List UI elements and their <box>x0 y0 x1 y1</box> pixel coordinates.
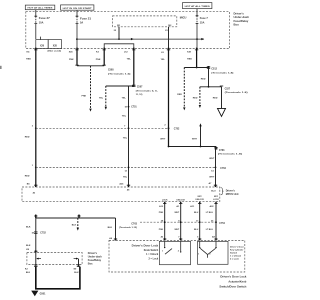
svg-text:PNK: PNK <box>82 96 87 98</box>
svg-text:15A: 15A <box>200 21 205 24</box>
svg-text:(Terminals 1-8): (Terminals 1-8) <box>218 154 242 156</box>
svg-text:Fuse 7: Fuse 7 <box>200 17 209 20</box>
svg-text:C764: C764 <box>220 167 226 170</box>
svg-text:BLU: BLU <box>194 212 199 214</box>
svg-text:(Terminals 1-6): (Terminals 1-6) <box>108 73 131 75</box>
svg-text:HOT IN ON OR START: HOT IN ON OR START <box>63 7 93 10</box>
svg-text:Driver's Door: Driver's Door <box>230 246 244 248</box>
svg-text:C763: C763 <box>131 224 137 226</box>
svg-text:BLK: BLK <box>26 226 31 228</box>
svg-text:RED: RED <box>25 176 30 178</box>
svg-text:PNK: PNK <box>69 59 74 61</box>
svg-text:YEL: YEL <box>99 97 104 99</box>
svg-text:UNLOCK: UNLOCK <box>176 200 185 202</box>
svg-text:Driver's: Driver's <box>226 189 236 192</box>
svg-text:LT BLU: LT BLU <box>206 229 214 231</box>
svg-text:G501: G501 <box>40 293 47 296</box>
svg-text:10A: 10A <box>39 21 44 24</box>
svg-text:RED: RED <box>177 94 182 96</box>
svg-text:(Terminals 5, 6,: (Terminals 5, 6, <box>136 90 159 92</box>
svg-text:LT BLU: LT BLU <box>206 212 214 214</box>
svg-text:KEY: KEY <box>198 196 203 198</box>
svg-text:Switch: Switch <box>230 251 238 254</box>
svg-text:BLU: BLU <box>194 229 199 231</box>
svg-text:C508: C508 <box>108 69 114 71</box>
svg-text:Box: Box <box>234 23 240 27</box>
svg-text:5A: 5A <box>80 22 83 25</box>
svg-text:1 = Unlock: 1 = Unlock <box>146 253 159 256</box>
svg-text:RED: RED <box>187 59 192 61</box>
svg-text:BLK: BLK <box>108 227 113 229</box>
svg-text:Knob Switch: Knob Switch <box>144 249 159 252</box>
svg-text:Switch/Door Switch: Switch/Door Switch <box>219 284 246 288</box>
svg-text:11, 12): 11, 12) <box>136 94 143 96</box>
svg-text:HOT AT ALL TIMES: HOT AT ALL TIMES <box>28 7 54 10</box>
svg-text:(Terminals 1-8): (Terminals 1-8) <box>225 92 248 94</box>
svg-text:WHT: WHT <box>174 229 179 231</box>
svg-text:C752: C752 <box>40 233 46 235</box>
svg-text:Fuse 27: Fuse 27 <box>39 17 51 20</box>
svg-text:PNK: PNK <box>159 229 164 231</box>
svg-text:WHT: WHT <box>209 158 215 160</box>
svg-text:YEL: YEL <box>123 177 128 179</box>
svg-text:YEL: YEL <box>161 59 166 61</box>
svg-text:YEL: YEL <box>122 97 127 99</box>
svg-text:1 = Unlock: 1 = Unlock <box>230 255 242 257</box>
svg-text:RED: RED <box>193 97 198 99</box>
svg-text:BLK: BLK <box>26 245 31 247</box>
svg-text:C754: C754 <box>219 222 225 225</box>
svg-text:C751: C751 <box>131 107 137 109</box>
svg-text:Driver's Door Lock: Driver's Door Lock <box>220 275 247 279</box>
svg-text:(Terminals 1-12): (Terminals 1-12) <box>119 227 137 229</box>
svg-text:MICU: MICU <box>180 15 187 19</box>
svg-text:Box: Box <box>88 262 93 265</box>
svg-text:LOCK: LOCK <box>162 200 168 202</box>
svg-text:(Terminals 1-8): (Terminals 1-8) <box>211 72 233 74</box>
svg-text:KEY: KEY <box>214 196 219 198</box>
svg-text:Fuse 21: Fuse 21 <box>80 18 92 21</box>
svg-text:WHT: WHT <box>160 138 166 140</box>
svg-text:(Not used): (Not used) <box>48 50 62 53</box>
svg-text:C763: C763 <box>219 150 225 152</box>
svg-text:PNK: PNK <box>159 212 164 214</box>
svg-text:MPCS Unit: MPCS Unit <box>226 193 239 196</box>
svg-text:RED: RED <box>213 97 218 99</box>
svg-text:RED: RED <box>26 59 31 61</box>
svg-text:RED: RED <box>25 136 30 138</box>
svg-text:BLK: BLK <box>26 272 31 274</box>
svg-text:RED: RED <box>201 78 206 80</box>
svg-text:C507: C507 <box>137 87 143 89</box>
svg-text:YEL: YEL <box>127 58 132 60</box>
svg-text:X28: X28 <box>53 45 58 47</box>
svg-text:WHT: WHT <box>192 138 198 140</box>
svg-text:PNK: PNK <box>96 59 101 61</box>
svg-text:C512: C512 <box>211 69 217 71</box>
svg-text:LOCK: LOCK <box>213 199 219 201</box>
svg-text:BLU: BLU <box>211 190 216 192</box>
svg-text:X26: X26 <box>40 45 45 47</box>
svg-text:Key Cylinder: Key Cylinder <box>230 249 244 251</box>
svg-text:YEL: YEL <box>123 138 128 140</box>
svg-text:HOT AT ALL TIMES: HOT AT ALL TIMES <box>185 5 211 8</box>
svg-text:UNLOCK: UNLOCK <box>195 199 204 201</box>
svg-text:WHT: WHT <box>209 176 215 178</box>
svg-text:WHT: WHT <box>174 212 179 214</box>
svg-text:C752: C752 <box>174 128 180 130</box>
svg-text:2 = Lock: 2 = Lock <box>230 258 240 260</box>
svg-text:C527: C527 <box>225 89 231 91</box>
svg-text:BLK: BLK <box>72 225 77 227</box>
svg-text:Driver's Door Lock: Driver's Door Lock <box>132 245 159 248</box>
svg-text:2 = Lock: 2 = Lock <box>149 257 159 260</box>
svg-text:YEL: YEL <box>122 116 127 118</box>
svg-text:BLK: BLK <box>74 272 79 274</box>
svg-text:Actuator/Knob: Actuator/Knob <box>228 280 246 284</box>
